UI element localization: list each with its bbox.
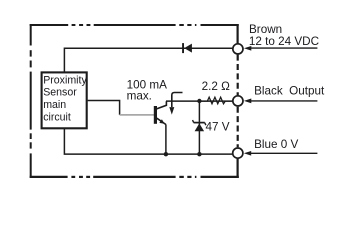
diode D1 (reverse polarity protection) on +V rail [182,43,192,53]
junction dot: emitter on 0V rail [164,152,168,156]
enclosure border right: solid stub from Blue terminal to bottom corner [237,159,239,178]
svg-text:Brown: Brown [249,23,282,36]
terminal: Brown [233,44,243,54]
current direction arrow (100 mA max.) [172,93,183,108]
transistor Q1 emitter lead with arrow [157,118,166,124]
svg-text:main: main [43,99,66,111]
svg-text:47 V: 47 V [206,120,230,133]
dashed link Brown terminal to Black terminal [237,55,239,96]
wire: emitter vertical to 0V rail [165,124,167,154]
label: Proximity Sensor main circuit [43,74,87,123]
svg-text:12 to 24 VDC: 12 to 24 VDC [249,35,319,48]
svg-text:Black Output: Black Output [254,85,325,98]
lead wire Black with arrow [251,100,317,102]
resistor R1 2.2 ohm [199,97,232,104]
wire: 0V rail from sensor box bottom to Blue terminal [64,128,232,154]
terminal: Black [233,96,243,106]
enclosure border right: solid stub from top corner to Brown terminal [237,24,239,44]
zener diode ZD1 47 V [194,122,205,124]
label: 100 mA max. [127,23,325,151]
transistor Q1 NPN base bar [154,106,157,124]
lead wire Brown with arrow [251,47,317,49]
svg-text:Blue 0 V: Blue 0 V [254,138,298,151]
wire: transistor base segment (gray) [120,114,155,116]
terminal: Blue [233,148,243,158]
svg-text:Sensor: Sensor [43,87,77,99]
proximity sensor box [42,72,87,128]
svg-text:circuit: circuit [43,111,71,123]
dashed enclosure border: top (phantom line) [30,24,239,26]
dashed enclosure border: bottom (phantom line) [30,176,239,178]
junction dot: zener on 0V rail [197,152,201,156]
wire: sensor box output to transistor base (black part) [88,101,120,115]
junction dot: collector/zener/resistor node [197,99,201,103]
svg-text:max.: max. [127,90,152,103]
dashed enclosure border: left (phantom line) [30,24,32,178]
svg-text:2.2 Ω: 2.2 Ω [202,80,230,93]
transistor Q1 collector lead [157,101,167,109]
lead wire Blue with arrow [251,152,317,154]
wire: +V rail from sensor box top to Brown terminal [64,48,232,72]
wire: zener branch vertical [198,101,200,154]
svg-text:Proximity: Proximity [43,74,87,86]
dashed link Black terminal to Blue terminal [237,107,239,148]
wire: collector rail to Black terminal [166,100,232,102]
